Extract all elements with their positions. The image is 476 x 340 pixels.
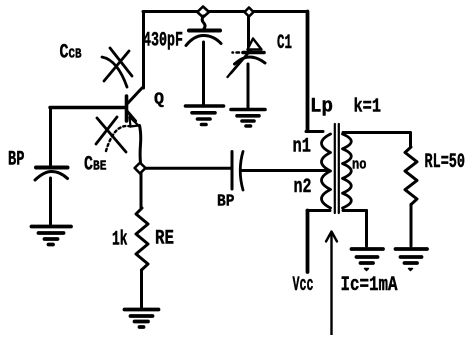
- svg-text:n1: n1: [293, 136, 312, 159]
- capacitor 430pF: [186, 31, 221, 46]
- wire emitter node to BP cap: [146, 167, 231, 170]
- svg-text:BP: BP: [217, 193, 235, 212]
- wire 430pF to ground: [202, 42, 205, 104]
- capacitor BP (left bypass): [35, 168, 68, 181]
- wire primary top stub: [306, 130, 323, 133]
- svg-text:Q: Q: [154, 91, 164, 110]
- svg-text:Ic=1mA: Ic=1mA: [341, 274, 398, 297]
- transistor Q: [127, 88, 143, 163]
- wire Vcc terminal: [306, 211, 310, 273]
- ground G5 (RL): [396, 249, 428, 271]
- inductor secondary winding: [343, 134, 352, 208]
- node junction J2: [245, 8, 254, 17]
- svg-text:RL=50: RL=50: [425, 151, 466, 174]
- svg-text:CB: CB: [69, 47, 82, 63]
- wire Lp vertical: [306, 12, 310, 132]
- svg-text:n2: n2: [294, 176, 312, 199]
- capacitor C1 (variable): [228, 39, 266, 78]
- resistor RE: [136, 208, 148, 270]
- wire RE top: [140, 174, 143, 209]
- capacitor Ccb (crossed out): [102, 48, 132, 87]
- resistor RL: [405, 147, 417, 205]
- wire base: [50, 106, 125, 109]
- node junction J3 (emitter): [135, 163, 146, 174]
- ground G6 (RE): [125, 310, 159, 328]
- wire top rail: [143, 10, 307, 13]
- wire secondary top: [343, 131, 410, 134]
- wire BP left to ground: [49, 178, 52, 224]
- arrow Ic current: [326, 232, 337, 336]
- svg-text:C1: C1: [277, 32, 292, 55]
- wire RL to ground: [410, 205, 413, 247]
- wire 430pF cap to rail: [202, 16, 205, 29]
- svg-text:RE: RE: [155, 228, 174, 251]
- svg-text:BE: BE: [93, 159, 107, 175]
- wire RE to ground: [140, 270, 143, 307]
- svg-text:k=1: k=1: [354, 96, 382, 118]
- node junction J1: [197, 7, 209, 18]
- wire secondary to ground: [365, 211, 368, 247]
- ground G2 (430pF): [186, 106, 224, 125]
- svg-text:430pF: 430pF: [143, 30, 183, 53]
- wire secondary bottom: [343, 209, 367, 212]
- svg-text:C: C: [60, 42, 69, 65]
- svg-text:no: no: [352, 157, 367, 174]
- ground G3 (C1): [231, 110, 265, 127]
- wire RL drop: [409, 133, 412, 148]
- capacitor BP (series bypass): [232, 152, 243, 191]
- wire BP left branch: [49, 108, 52, 165]
- svg-text:BP: BP: [8, 149, 25, 172]
- svg-text:C: C: [84, 154, 93, 177]
- capacitor Cbe (crossed out): [96, 117, 132, 152]
- wire C1 to rail: [247, 16, 250, 51]
- wire C1 to ground: [247, 64, 250, 108]
- ground G4 (secondary): [352, 249, 384, 271]
- inductor primary winding n1+n2: [322, 134, 331, 208]
- wire primary bottom: [307, 209, 330, 212]
- svg-text:1k: 1k: [112, 229, 128, 252]
- svg-text:Lp: Lp: [310, 96, 333, 119]
- wire collector vertical: [142, 12, 145, 89]
- svg-text:Vcc: Vcc: [293, 274, 314, 297]
- wire BP cap to transformer tap: [242, 169, 327, 172]
- transformer core: [335, 124, 339, 213]
- ground G1 (left BP): [32, 227, 72, 245]
